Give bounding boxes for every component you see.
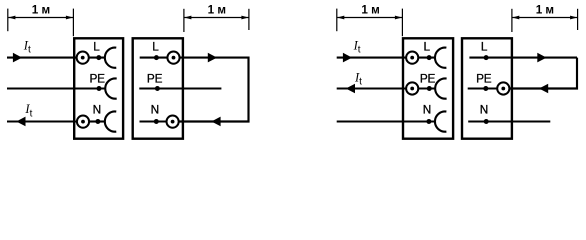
wire L through box 4 to loop bbox=[469, 57, 577, 59]
dimension line 1 m (left, diagram 2) bbox=[337, 16, 402, 20]
junction dot L (box 4) bbox=[484, 55, 489, 60]
svg-text:1 м: 1 м bbox=[32, 4, 50, 17]
arrow current on loop top (diagram 2) bbox=[537, 53, 546, 63]
arrow current into L (diagram 2) bbox=[343, 53, 352, 63]
svg-text:N: N bbox=[93, 103, 101, 117]
socket-outlet box 3 (diagram 2 left box) bbox=[403, 38, 453, 138]
arrow current out of N (diagram 1) bbox=[16, 117, 25, 127]
svg-text:L: L bbox=[152, 40, 159, 54]
svg-text:PE: PE bbox=[476, 71, 492, 85]
wire PE through box 2 with external stub bbox=[139, 87, 221, 89]
svg-text:N: N bbox=[423, 103, 431, 117]
wire L inside box 3 bbox=[418, 57, 435, 59]
socket contact N (box 1) bbox=[105, 111, 116, 131]
svg-text:N: N bbox=[480, 103, 488, 117]
junction dot N (box 3) bbox=[426, 119, 431, 124]
svg-text:L: L bbox=[481, 40, 488, 54]
socket contact L (box 1) bbox=[105, 48, 116, 68]
dimension line 1 m (left, diagram 1) bbox=[8, 16, 73, 20]
arrow current on loop top (diagram 1) bbox=[208, 53, 217, 63]
dimension tick left (diagram 1) bbox=[7, 9, 9, 32]
arrow current into L (diagram 1) bbox=[13, 53, 22, 63]
junction dot PE (box 2) bbox=[155, 86, 160, 91]
plug pin circle L (box 2) bbox=[167, 52, 179, 64]
svg-text:1 м: 1 м bbox=[361, 4, 379, 17]
wire N supply (diagram 1) bbox=[7, 120, 77, 122]
dimension tick above loop wire (diagram 2) bbox=[577, 9, 579, 30]
socket contact PE (box 1) bbox=[105, 78, 116, 98]
junction dot PE (box 3) bbox=[427, 86, 432, 91]
wire L inside box 1 bbox=[89, 57, 105, 59]
dimension tick above box 2 right edge bbox=[183, 9, 185, 32]
wire N through box 4 with external stub bbox=[468, 120, 550, 122]
svg-text:1 м: 1 м bbox=[208, 4, 226, 17]
plug pin circle N (box 2) bbox=[167, 116, 179, 128]
svg-text:PE: PE bbox=[90, 71, 106, 85]
junction dot PE (box 1) bbox=[97, 86, 102, 91]
arrow current out of PE (diagram 2) bbox=[346, 84, 355, 94]
svg-text:L: L bbox=[93, 40, 100, 54]
wire N inside box 2 bbox=[140, 120, 167, 122]
wire L supply (diagram 1) bbox=[7, 57, 77, 59]
measuring loop wire L to N (diagram 1) bbox=[179, 58, 249, 122]
svg-text:PE: PE bbox=[420, 71, 436, 85]
appliance box 2 (diagram 1 right box) bbox=[133, 38, 183, 138]
junction dot L (box 3) bbox=[427, 55, 432, 60]
measuring loop wire L to PE (diagram 2) bbox=[509, 58, 577, 89]
wire PE supply (diagram 2) bbox=[337, 87, 406, 89]
arrow current on loop return (diagram 2) bbox=[539, 84, 548, 94]
appliance box 4 (diagram 2 right box) bbox=[462, 38, 512, 138]
dimension tick above box 4 right edge bbox=[511, 9, 513, 32]
junction dot L (box 2) bbox=[154, 55, 159, 60]
plug pin circle PE (box 4) bbox=[497, 82, 509, 94]
junction dot N (box 2) bbox=[154, 119, 159, 124]
junction dot PE (box 4) bbox=[483, 86, 488, 91]
dimension line 1 m (middle, diagram 1) bbox=[184, 16, 248, 20]
wire PE inside box 3 bbox=[418, 87, 435, 89]
junction dot L (box 1) bbox=[96, 55, 101, 60]
svg-text:N: N bbox=[151, 103, 159, 117]
socket contact PE (box 3) bbox=[435, 78, 446, 98]
socket-outlet box 1 (diagram 1 left box) bbox=[74, 38, 123, 138]
wire PE inside box 4 bbox=[468, 87, 498, 89]
socket contact N (box 3) bbox=[435, 111, 446, 131]
plug pin circle L (box 3) bbox=[406, 52, 418, 64]
wire L inside box 2 bbox=[140, 57, 168, 59]
socket contact L (box 3) bbox=[435, 48, 446, 68]
plug pin circle PE (box 3) bbox=[406, 82, 418, 94]
dimension tick above box 3 left edge bbox=[401, 9, 403, 37]
plug pin circle N (box 1) bbox=[77, 116, 89, 128]
dimension line 1 m (right, diagram 2) bbox=[512, 16, 577, 20]
svg-text:L: L bbox=[424, 40, 431, 54]
junction dot N (box 4) bbox=[484, 119, 489, 124]
plug pin circle L (box 1) bbox=[77, 52, 89, 64]
wire L supply (diagram 2) bbox=[337, 57, 406, 59]
wire N supply into box 3 bbox=[337, 120, 436, 122]
dimension tick above loop wire (diagram 1) bbox=[248, 9, 250, 30]
wire N inside box 1 bbox=[89, 120, 105, 122]
junction dot N (box 1) bbox=[95, 119, 100, 124]
dimension tick right above box 1 left edge bbox=[72, 9, 74, 37]
svg-text:1 м: 1 м bbox=[536, 4, 554, 17]
wire PE supply (diagram 1) bbox=[7, 87, 105, 89]
dimension tick left (diagram 2) bbox=[336, 9, 338, 32]
svg-text:PE: PE bbox=[147, 71, 163, 85]
arrow current on loop bottom (diagram 1) bbox=[211, 117, 220, 127]
